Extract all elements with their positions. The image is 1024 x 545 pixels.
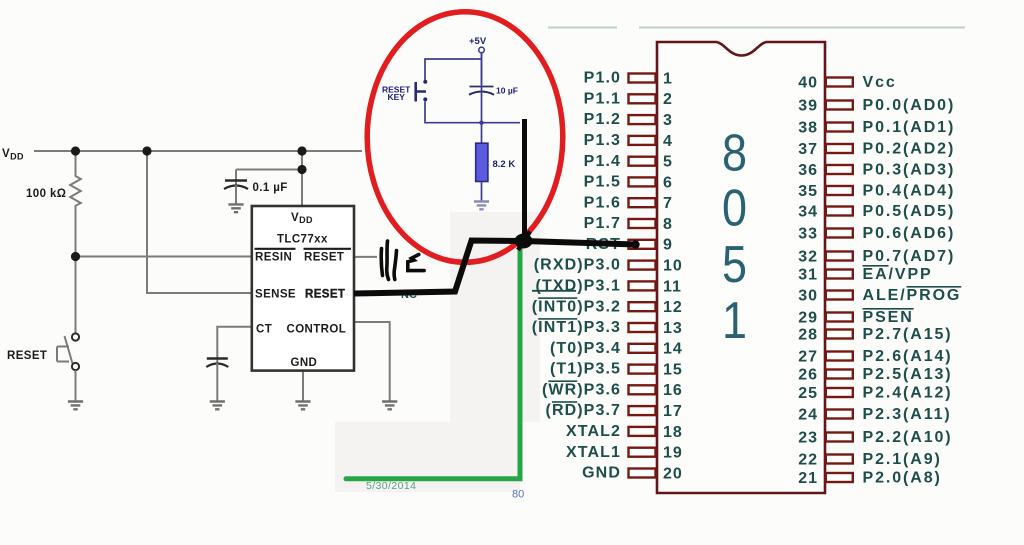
- svg-text:P1.5: P1.5: [584, 174, 621, 191]
- svg-text:0: 0: [722, 180, 747, 238]
- svg-text:XTAL2: XTAL2: [566, 423, 621, 440]
- svg-text:4: 4: [663, 133, 673, 150]
- svg-text:TLC77xx: TLC77xx: [277, 234, 328, 246]
- svg-text:(T1)P3.5: (T1)P3.5: [550, 361, 621, 378]
- svg-text:P2.3(A11): P2.3(A11): [863, 406, 952, 423]
- svg-text:6: 6: [663, 174, 673, 191]
- svg-text:39: 39: [798, 97, 818, 114]
- svg-text:CT: CT: [256, 324, 272, 336]
- svg-text:7: 7: [663, 195, 673, 212]
- svg-text:2: 2: [663, 91, 673, 108]
- svg-text:P1.7: P1.7: [584, 215, 621, 232]
- svg-text:40: 40: [798, 74, 818, 91]
- svg-text:3: 3: [663, 112, 673, 129]
- svg-text:(WR)P3.6: (WR)P3.6: [542, 381, 621, 398]
- svg-text:EA/VPP: EA/VPP: [863, 266, 933, 283]
- svg-text:25: 25: [798, 385, 818, 402]
- svg-text:1: 1: [722, 292, 747, 350]
- svg-text:(RD)P3.7: (RD)P3.7: [546, 402, 622, 419]
- svg-text:Vcc: Vcc: [863, 74, 897, 91]
- svg-text:P2.6(A14): P2.6(A14): [863, 348, 953, 365]
- svg-text:SENSE: SENSE: [255, 289, 296, 301]
- svg-text:20: 20: [663, 465, 683, 482]
- svg-text:P2.7(A15): P2.7(A15): [863, 326, 953, 343]
- svg-text:100 kΩ: 100 kΩ: [26, 188, 66, 200]
- svg-text:21: 21: [798, 470, 818, 487]
- svg-text:P2.5(A13): P2.5(A13): [863, 366, 953, 383]
- svg-text:35: 35: [798, 183, 818, 200]
- svg-text:P0.6(AD6): P0.6(AD6): [863, 225, 956, 242]
- svg-text:RESET: RESET: [304, 252, 344, 264]
- svg-text:RESIN: RESIN: [255, 252, 292, 264]
- svg-text:15: 15: [663, 362, 683, 379]
- svg-text:37: 37: [798, 141, 818, 158]
- svg-text:P2.1(A9): P2.1(A9): [863, 451, 942, 468]
- svg-text:11: 11: [663, 278, 682, 295]
- svg-text:(TXD)P3.1: (TXD)P3.1: [536, 278, 621, 295]
- svg-text:GND: GND: [582, 465, 621, 482]
- svg-text:P0.7(AD7): P0.7(AD7): [863, 248, 956, 265]
- svg-text:19: 19: [663, 445, 683, 462]
- svg-text:12: 12: [663, 299, 683, 316]
- svg-text:28: 28: [798, 326, 818, 343]
- svg-text:P1.1: P1.1: [584, 90, 621, 107]
- svg-text:22: 22: [798, 451, 818, 468]
- svg-text:29: 29: [798, 309, 818, 326]
- svg-text:P2.4(A12): P2.4(A12): [863, 385, 953, 402]
- svg-text:GND: GND: [291, 357, 318, 369]
- svg-text:9: 9: [663, 237, 673, 254]
- svg-text:31: 31: [798, 266, 818, 283]
- svg-text:(INT0)P3.2: (INT0)P3.2: [532, 298, 621, 315]
- svg-text:8.2 K: 8.2 K: [493, 159, 516, 170]
- svg-text:P0.5(AD5): P0.5(AD5): [863, 203, 956, 220]
- svg-text:10 µF: 10 µF: [496, 86, 518, 96]
- svg-text:17: 17: [663, 403, 683, 420]
- svg-text:P0.1(AD1): P0.1(AD1): [863, 119, 956, 136]
- svg-text:33: 33: [798, 225, 818, 242]
- svg-text:1: 1: [663, 70, 673, 87]
- svg-text:P2.0(A8): P2.0(A8): [863, 470, 942, 487]
- svg-text:34: 34: [798, 203, 818, 220]
- svg-text:KEY: KEY: [388, 92, 406, 102]
- svg-text:RESET: RESET: [305, 289, 345, 301]
- svg-text:18: 18: [663, 424, 683, 441]
- svg-text:P0.3(AD3): P0.3(AD3): [863, 162, 956, 179]
- svg-text:26: 26: [798, 366, 818, 383]
- svg-text:14: 14: [663, 341, 683, 358]
- svg-text:8: 8: [722, 125, 747, 183]
- svg-text:XTAL1: XTAL1: [566, 444, 621, 461]
- svg-text:P1.0: P1.0: [584, 70, 621, 87]
- svg-text:80: 80: [512, 489, 524, 501]
- svg-text:(T0)P3.4: (T0)P3.4: [550, 340, 621, 357]
- svg-text:PSEN: PSEN: [863, 309, 914, 326]
- svg-text:5: 5: [663, 154, 673, 171]
- svg-text:24: 24: [798, 406, 818, 423]
- svg-text:P1.2: P1.2: [584, 111, 621, 128]
- svg-text:+5V: +5V: [469, 36, 487, 47]
- svg-text:RESET: RESET: [7, 350, 47, 362]
- svg-text:13: 13: [663, 320, 683, 337]
- svg-text:P0.0(AD0): P0.0(AD0): [863, 97, 956, 114]
- svg-text:27: 27: [798, 348, 818, 365]
- svg-text:P2.2(A10): P2.2(A10): [863, 429, 953, 446]
- svg-text:P0.2(AD2): P0.2(AD2): [863, 141, 956, 158]
- svg-text:ALE/PROG: ALE/PROG: [863, 287, 962, 304]
- svg-text:CONTROL: CONTROL: [287, 324, 347, 336]
- svg-text:23: 23: [798, 429, 818, 446]
- svg-text:P1.6: P1.6: [584, 194, 621, 211]
- svg-text:30: 30: [798, 287, 818, 304]
- svg-text:P1.3: P1.3: [584, 132, 621, 149]
- svg-text:5: 5: [722, 236, 747, 294]
- svg-text:36: 36: [798, 162, 818, 179]
- svg-text:(INT1)P3.3: (INT1)P3.3: [532, 319, 621, 336]
- svg-text:5/30/2014: 5/30/2014: [366, 480, 416, 492]
- svg-text:P0.4(AD4): P0.4(AD4): [863, 183, 956, 200]
- svg-text:VDD: VDD: [2, 148, 24, 162]
- svg-text:8: 8: [663, 216, 673, 233]
- svg-text:38: 38: [798, 119, 818, 136]
- svg-text:(RXD)P3.0: (RXD)P3.0: [534, 257, 621, 274]
- svg-text:16: 16: [663, 382, 683, 399]
- svg-text:0.1 µF: 0.1 µF: [253, 182, 288, 194]
- svg-text:32: 32: [798, 248, 818, 265]
- svg-text:10: 10: [663, 258, 683, 275]
- svg-text:P1.4: P1.4: [584, 153, 621, 170]
